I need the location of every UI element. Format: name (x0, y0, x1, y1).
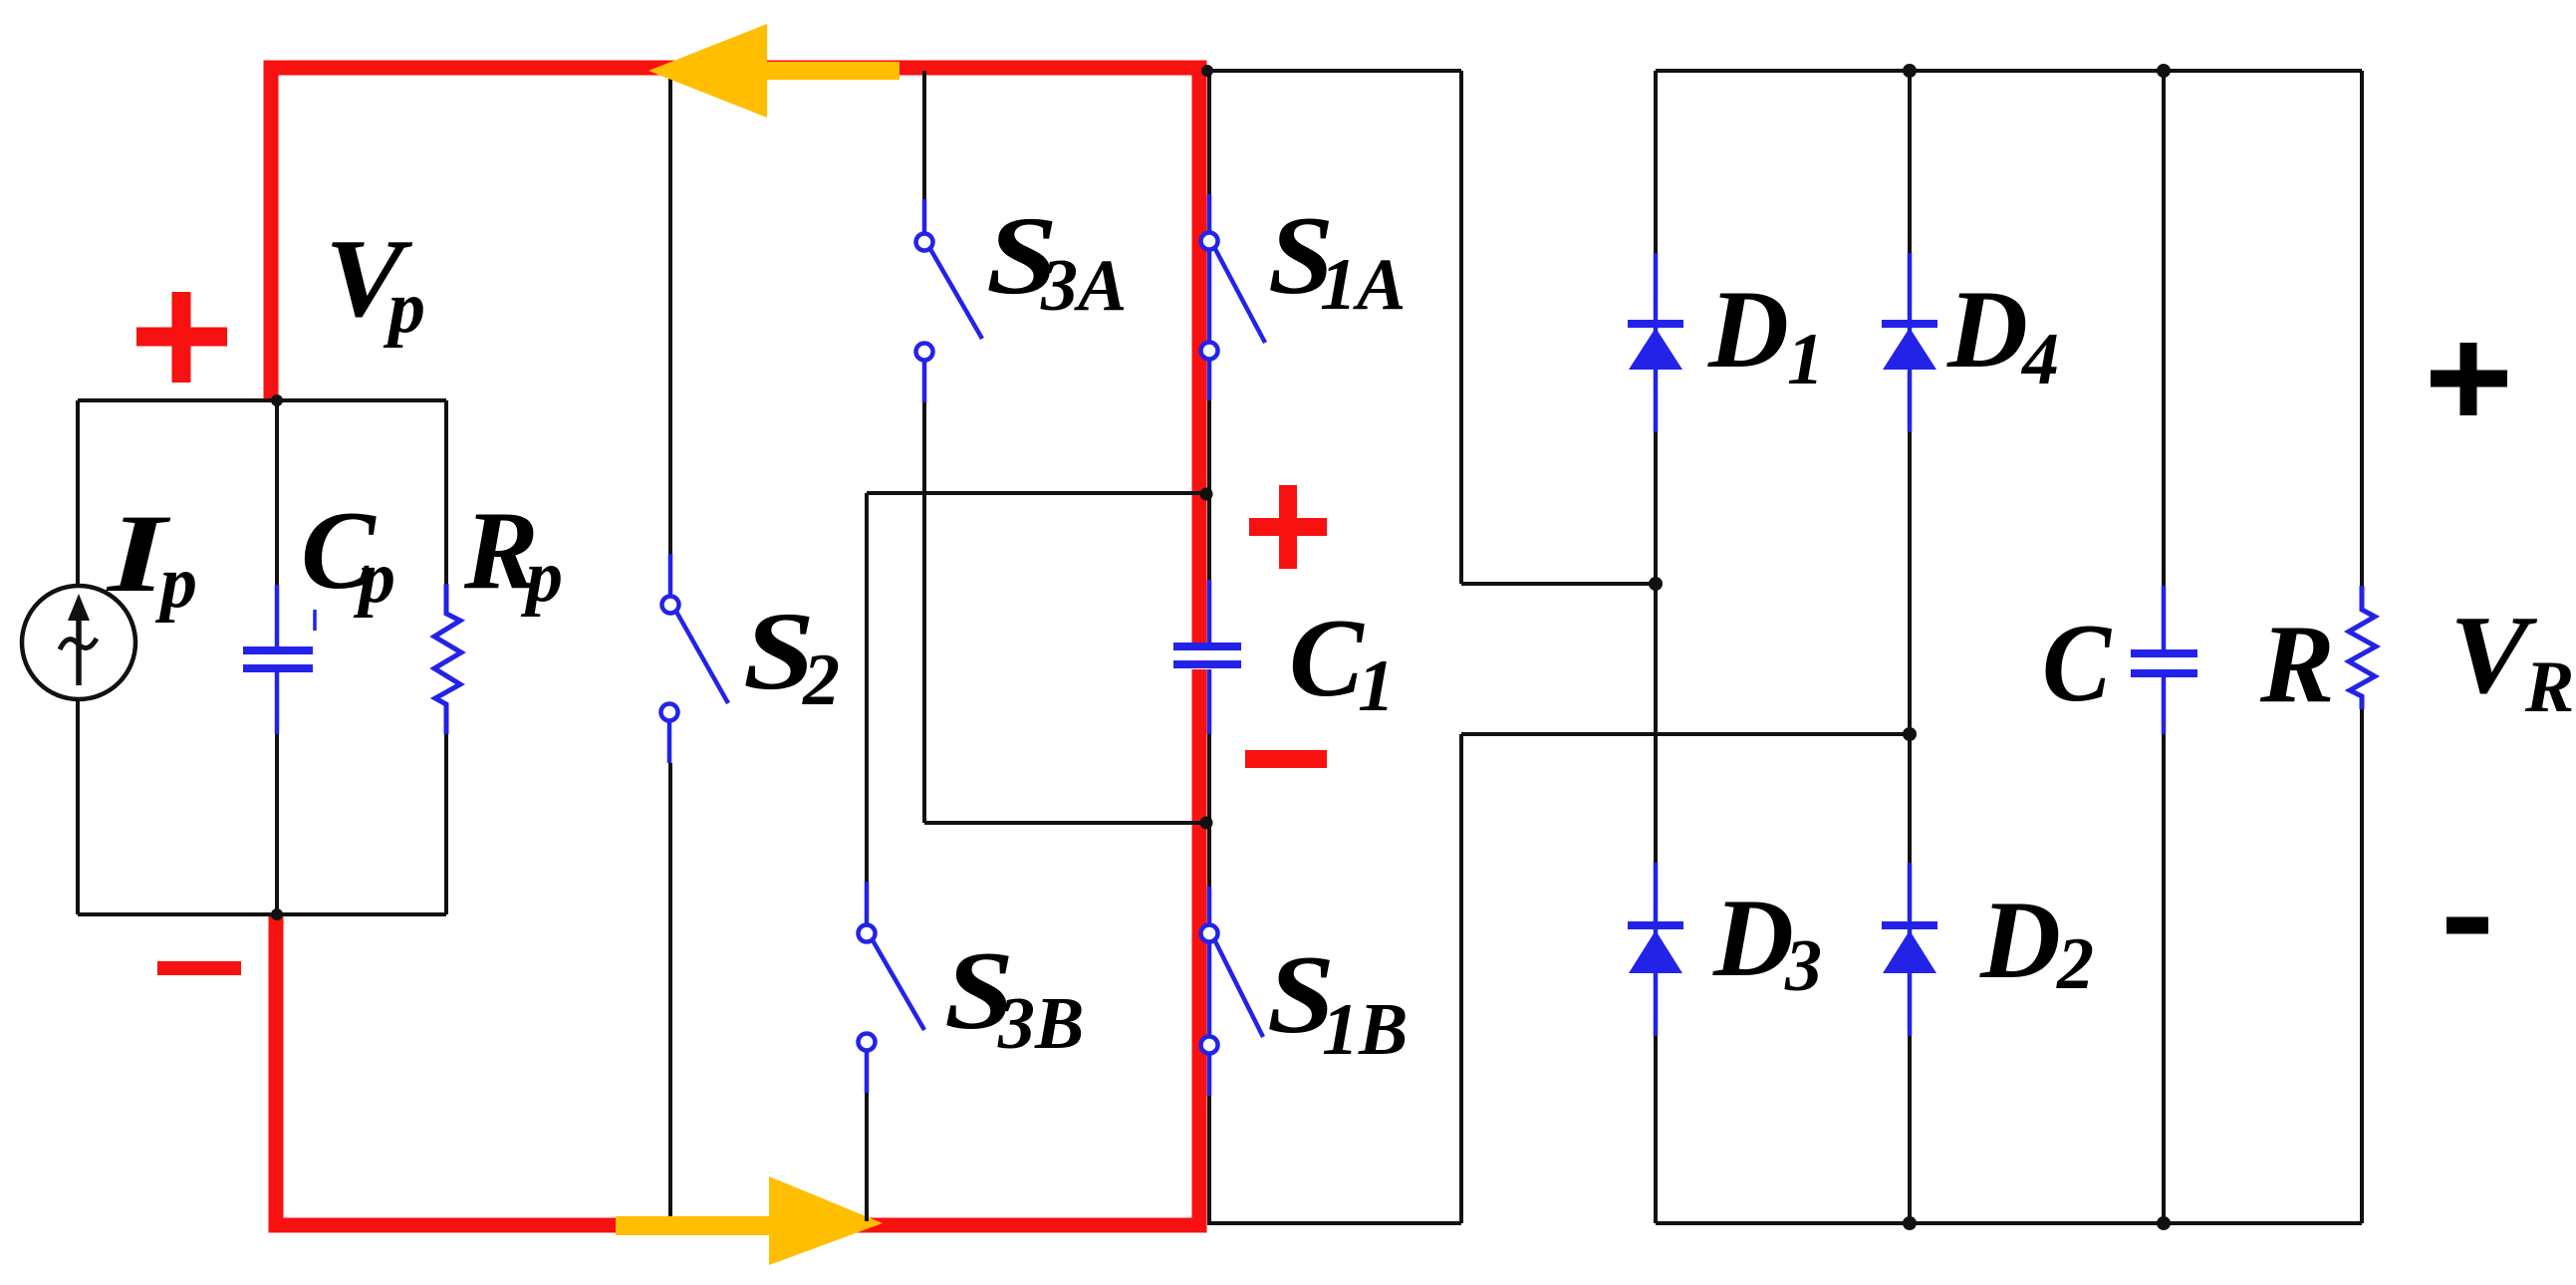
svg-text:p: p (520, 536, 563, 618)
svg-text:1B: 1B (1322, 989, 1408, 1071)
svg-text:3B: 3B (997, 983, 1084, 1065)
svg-text:p: p (353, 537, 395, 619)
svg-text:p: p (383, 267, 425, 349)
svg-text:4: 4 (2020, 319, 2059, 400)
svg-text:1: 1 (1358, 645, 1395, 727)
svg-text:D: D (1946, 268, 2028, 391)
svg-text:2: 2 (802, 640, 840, 721)
svg-text:p: p (154, 542, 197, 624)
svg-text:D: D (1979, 879, 2061, 1002)
svg-text:C: C (1289, 597, 1365, 720)
svg-text:3: 3 (1784, 925, 1822, 1007)
svg-text:D: D (1707, 268, 1789, 391)
svg-text:1A: 1A (1320, 244, 1406, 326)
svg-text:3A: 3A (1040, 245, 1127, 327)
svg-text:2: 2 (2056, 923, 2094, 1005)
svg-text:D: D (1712, 877, 1794, 1000)
svg-text:R: R (2259, 603, 2335, 726)
svg-text:1: 1 (1787, 319, 1824, 400)
svg-text:C: C (2042, 602, 2112, 725)
svg-text:R: R (2524, 646, 2574, 728)
